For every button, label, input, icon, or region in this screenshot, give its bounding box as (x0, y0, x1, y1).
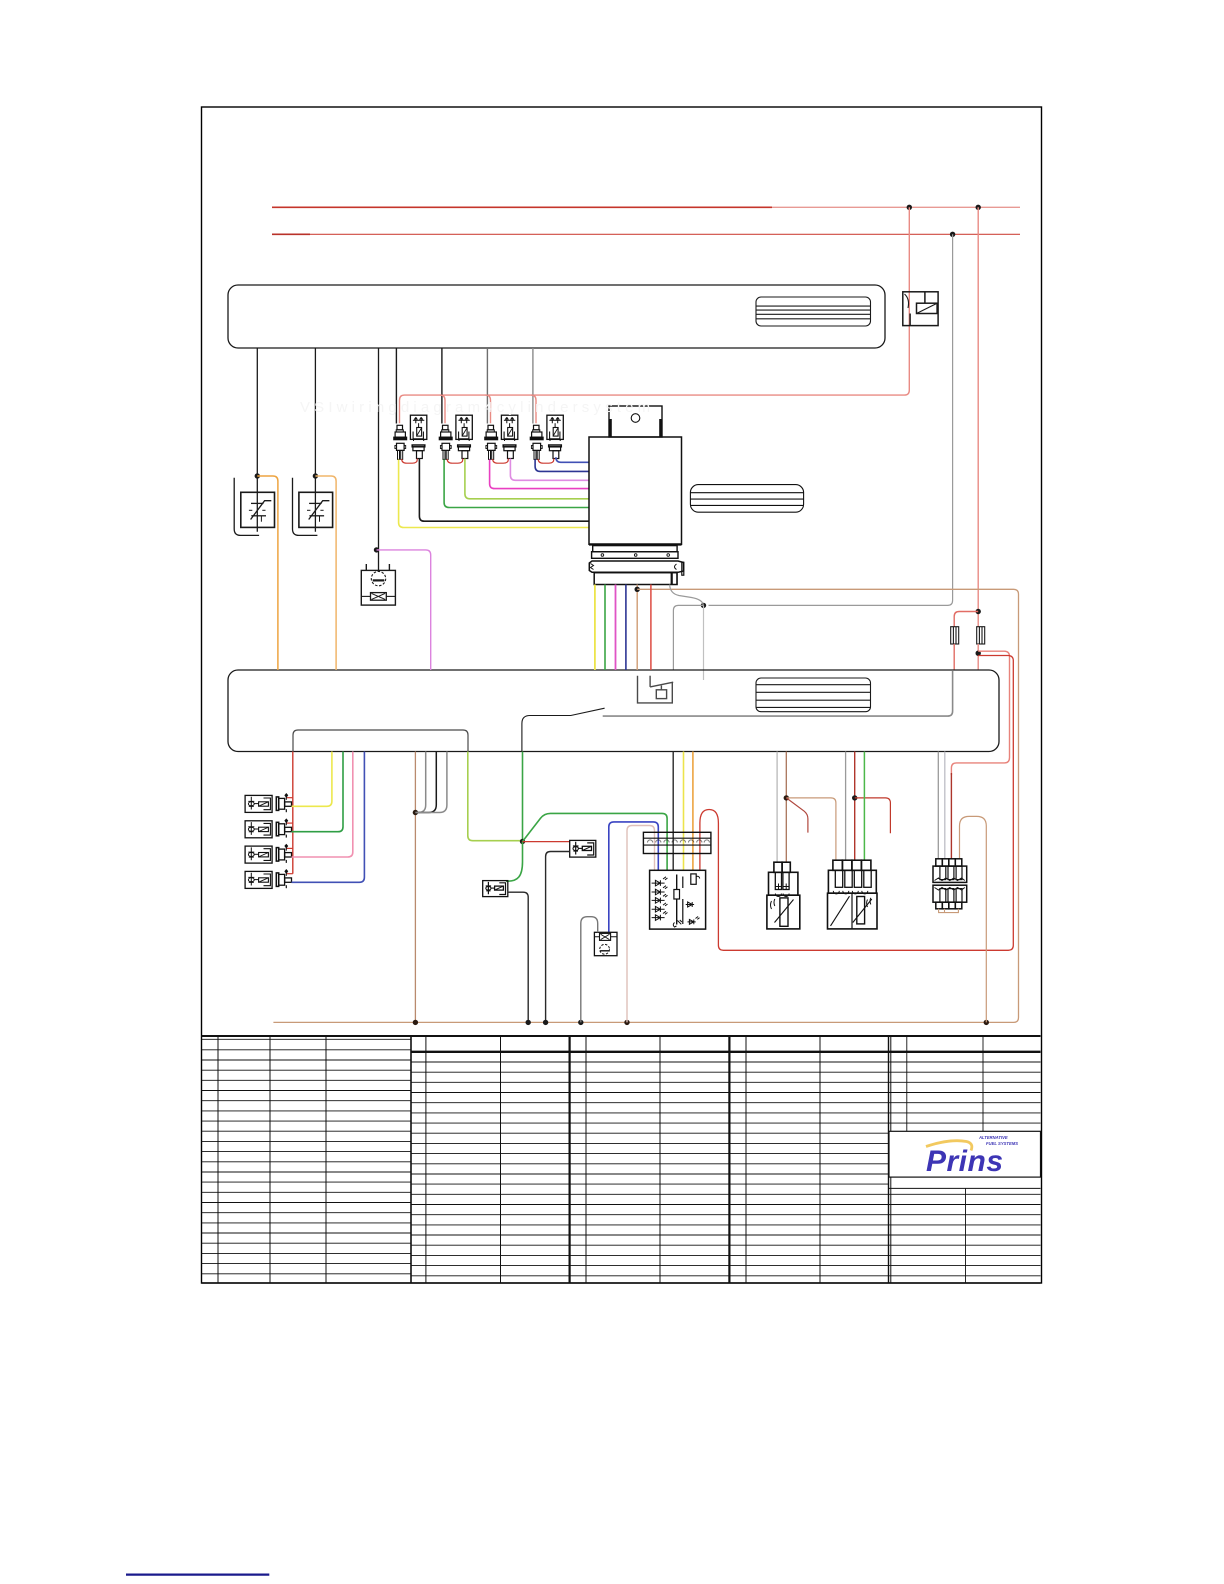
svg-text:V S I w i r i n g d i a g: V S I w i r i n g d i a g r a m 4 c y l … (300, 399, 650, 416)
coolant temp sensor B1 (234, 478, 274, 536)
wire ECU to petrol injector 1 plug (395, 348, 397, 424)
wire light red branch to fuse F1 (954, 612, 978, 627)
wire red jumper petrol plug 3 to LPG socket 3 (493, 459, 509, 464)
wire light gray node A down into VSI ECU (703, 605, 705, 680)
LPG injector 3 (501, 415, 517, 441)
petrol injector harness socket 4 (531, 443, 542, 459)
wire +15 ignition rail (second red line) (272, 233, 1020, 235)
VSI ECU inner tray bracket (293, 730, 468, 752)
VSI ECU U2 connector box (228, 670, 999, 752)
petrol injector plug 2 (439, 425, 452, 439)
LPG injector harness socket 1 (412, 445, 425, 459)
wire black ECU to coolant sensor B2 (314, 348, 316, 532)
gas control unit U3 label hatch (690, 485, 803, 513)
wire green node diagonal branch to selector (523, 813, 668, 870)
wire green VSI ECU to MAP sensor (863, 752, 865, 861)
wire ECU to petrol injector 2 plug (441, 348, 443, 424)
wire red jumper petrol plug 1 to LPG socket 1 (402, 459, 418, 464)
LPG injector harness socket 4 (549, 445, 562, 459)
wire black valve V5 to ground rail (508, 892, 528, 1022)
wire red node to lock-off valve V6 (523, 841, 570, 843)
wire green U3 to VSI ECU (604, 585, 606, 671)
wire tan U3 to VSI ECU (636, 585, 638, 671)
junction node red MAP feed (852, 795, 857, 800)
wire gray 1 VSI ECU to tank sender (937, 752, 939, 859)
wire red U3 to VSI ECU (650, 585, 652, 671)
junction node on sensor B2 wire (313, 473, 318, 478)
wire ECU to petrol injector 4 plug (532, 348, 534, 424)
petrol injector harness socket 3 (486, 443, 497, 459)
wire magenta U3 to VSI ECU (615, 585, 617, 671)
junction node valve feed (520, 839, 525, 844)
wire gray VSI ECU to MAP sensor (845, 752, 847, 861)
junction node on +30 rail at x909 (907, 205, 912, 210)
wire orange sensor B2 to VSI ECU (315, 476, 336, 670)
tan jumper links on tank sender (939, 909, 959, 913)
wire navy petrol injector 4 to gas controller (535, 459, 589, 471)
valve 2 harness plug (276, 819, 291, 837)
junction node fuse branch (976, 609, 981, 614)
wire brown node to MAP sensor pin1 (786, 798, 836, 860)
valve 4 harness plug (276, 870, 291, 888)
petrol injector plug 3 (485, 425, 498, 439)
wire black VSI ECU to ground node (415, 752, 436, 813)
lock-off valve V5 (483, 881, 508, 897)
ECU U1 label hatch (756, 297, 871, 326)
junction node rail selector (624, 1020, 629, 1025)
wire tan tank sender loop to ground rail (960, 816, 987, 1022)
junction node rail brown (413, 1020, 418, 1025)
wire blue selector to buzzer (609, 822, 659, 932)
junction node brown sensor feed (784, 795, 789, 800)
terminal strip X1 (643, 832, 711, 853)
wire red fused branch lower to selector switch (700, 656, 1013, 951)
wire violet lambda node to VSI ECU (377, 550, 431, 670)
wire ECU to petrol injector 3 plug (486, 348, 488, 424)
wire gray 2 VSI ECU to ground node (415, 752, 447, 813)
junction node rail buzzer (578, 1020, 583, 1025)
wire yellow petrol injector 1 to gas controller (399, 459, 589, 527)
wire red VSI ECU feed to valve group (292, 752, 294, 874)
junction node rail tank sender (984, 1020, 989, 1025)
title block table (202, 1036, 1041, 1283)
fuse F2 (977, 627, 985, 644)
petrol injector harness socket 2 (440, 443, 451, 459)
wire orange sensor B1 to VSI ECU (257, 476, 278, 670)
wire +30 battery rail (top red line) (272, 206, 1020, 208)
wire brown VSI ECU to gas temp sensor (785, 752, 787, 863)
wire black ECU to lambda tap component (378, 348, 380, 570)
wire light red fuse F2 output to branch node (977, 644, 979, 670)
wire orange VSI ECU to selector (692, 752, 694, 871)
lock-off valve V6 (570, 840, 596, 857)
wire light red fuse F1 output into VSI ECU (953, 644, 955, 670)
petrol injector plug 4 (530, 425, 543, 439)
wire red fused branch upper to tank sender (951, 651, 1009, 775)
LPG injector 4 (547, 415, 563, 441)
footer rule (126, 1573, 269, 1575)
wire gray from +15 node down and left to node A (709, 234, 953, 605)
fuse F1 (951, 627, 959, 644)
wire dark red to tank sender pin3 (950, 773, 952, 859)
LPG injector harness socket 3 (503, 445, 516, 459)
wire light green VSI ECU to valve node (468, 752, 523, 841)
wire gray 2 VSI ECU to tank sender (944, 752, 946, 859)
gas valve 1 (245, 795, 272, 812)
wire tan node to right side ground rail (273, 589, 1018, 1022)
gas valve 3 (245, 846, 272, 863)
LPG injector 1 (410, 415, 426, 441)
wire light red from +30 node x978 down to fuse F2 (977, 207, 979, 626)
wire yellow valve 1 to VSI ECU (292, 752, 332, 807)
wire green VSI ECU down to valve node (522, 752, 524, 842)
gas valve 4 (245, 871, 272, 888)
wire red jumper petrol plug 4 to LPG socket 4 (538, 459, 554, 464)
junction node rail V5 (526, 1020, 531, 1025)
gas control unit U3 base plate (589, 544, 682, 558)
wire red bus drop to injector 4 (531, 395, 536, 423)
wire pink valve 3 to VSI ECU (292, 752, 353, 858)
LPG injector 2 (456, 415, 472, 441)
wire gray node A to VSI ECU top left branch (673, 605, 703, 670)
gas control unit U3 mounting tab (609, 406, 662, 437)
junction node on +15 rail at x952 (950, 232, 955, 237)
node A gray junction (701, 603, 706, 608)
wire magenta petrol injector 3 to gas controller (490, 459, 589, 488)
wire salmon selector to ground rail (627, 826, 655, 1023)
wire blue U3 to VSI ECU (625, 585, 627, 671)
wire green node to lock-off valve V5 (506, 842, 523, 882)
valve 1 harness plug (276, 794, 291, 812)
wire red stub to valve 1 plug (286, 797, 293, 799)
fuel selector switch internals (652, 874, 700, 927)
wire black VSI ECU to selector (672, 752, 674, 871)
fuel selector switch S1 (650, 870, 706, 929)
gas control unit U3 connector (589, 561, 684, 585)
valve 3 harness plug (276, 845, 291, 863)
wire gray U3 connector to node A (670, 585, 704, 606)
wire red stub to valve 2 plug (286, 822, 293, 824)
wire dark red VSI ECU to MAP sensor (854, 752, 856, 861)
drawing border frame (202, 107, 1042, 1283)
relay K1 (903, 292, 938, 326)
wire blue LPG injector 4 to gas controller (556, 457, 589, 462)
wire green petrol injector 2 to gas controller (444, 459, 589, 507)
junction node on +30 rail at x978 (976, 205, 981, 210)
wire black valve V6 to ground rail (546, 852, 570, 1023)
VSI ECU internal switch blade (522, 708, 605, 751)
wire gray 1 VSI ECU to ground node (415, 752, 425, 813)
Prins logo (889, 1131, 1041, 1188)
wire red bus drop to injector 2 (440, 395, 445, 423)
wire black ECU to coolant sensor B1 (256, 348, 258, 532)
ECU U1 petrol ECU connector box (228, 285, 885, 348)
junction node brown ground (413, 810, 418, 815)
LPG injector harness socket 2 (458, 445, 471, 459)
VSI ECU label hatch (756, 678, 871, 712)
tank level sender connector pair (933, 859, 967, 909)
wire black LPG injector 1 to gas controller (419, 459, 589, 522)
wire gray VSI ECU to gas temp sensor (776, 752, 778, 863)
buzzer BZ1 (594, 932, 617, 955)
gas valve 2 (245, 821, 272, 838)
wire green valve 2 to VSI ECU (292, 752, 344, 832)
wire brown VSI ECU to ground rail (414, 752, 416, 1023)
gas temperature sensor B4 (767, 862, 800, 929)
wire light green LPG injector 2 to gas controller (465, 459, 589, 499)
svg-text:ALTERNATIVE: ALTERNATIVE (978, 1135, 1008, 1140)
junction node on sensor B1 wire (255, 473, 260, 478)
gas control unit U3 body (589, 437, 682, 544)
wire red stub to valve 4 plug (286, 873, 293, 875)
VSI ECU internal switch throw to fuse feed (603, 671, 953, 716)
lambda sensor interface component (361, 564, 395, 605)
junction node tan wire (635, 587, 640, 592)
svg-text:FUEL SYSTEMS: FUEL SYSTEMS (986, 1141, 1018, 1146)
junction node rail V6 (543, 1020, 548, 1025)
wire blue valve 4 to VSI ECU (292, 752, 365, 883)
service connection symbol inside VSI ECU (638, 676, 674, 703)
wire gray buzzer hook to ground rail (581, 917, 598, 1023)
petrol injector plug 1 (394, 425, 407, 439)
petrol injector harness socket 1 (395, 443, 406, 459)
wire yellow VSI ECU to selector (683, 752, 685, 871)
wire yellow U3 to VSI ECU (594, 585, 596, 671)
MAP and gas temp combi sensor B5 (828, 860, 878, 929)
wire dark red stub from brown node (786, 798, 808, 833)
junction node fused supply (976, 651, 981, 656)
wire red stub to valve 3 plug (286, 847, 293, 849)
wire red bus drop to injector 3 (486, 395, 491, 423)
junction node on lambda wire (374, 547, 379, 552)
wire violet LPG injector 3 to gas controller (510, 459, 589, 481)
coolant temp sensor B2 (293, 478, 333, 536)
wire light-red from +30 node down through relay to injector bus (400, 207, 910, 423)
svg-text:Prins: Prins (926, 1145, 1004, 1178)
wire red jumper petrol plug 2 to LPG socket 2 (447, 459, 463, 464)
wire red stub from MAP node (855, 798, 891, 833)
